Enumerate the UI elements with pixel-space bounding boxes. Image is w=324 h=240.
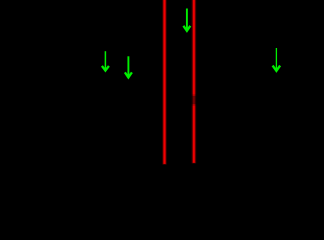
green arrow A1 [102,51,109,70]
red line L1 (left string) [162,0,167,165]
dim segment on L2 [191,96,197,104]
green arrow A4 [273,48,281,71]
green arrow A2 [125,56,132,77]
green arrow A3 [183,9,190,31]
red line L2 (right string) [192,0,197,163]
